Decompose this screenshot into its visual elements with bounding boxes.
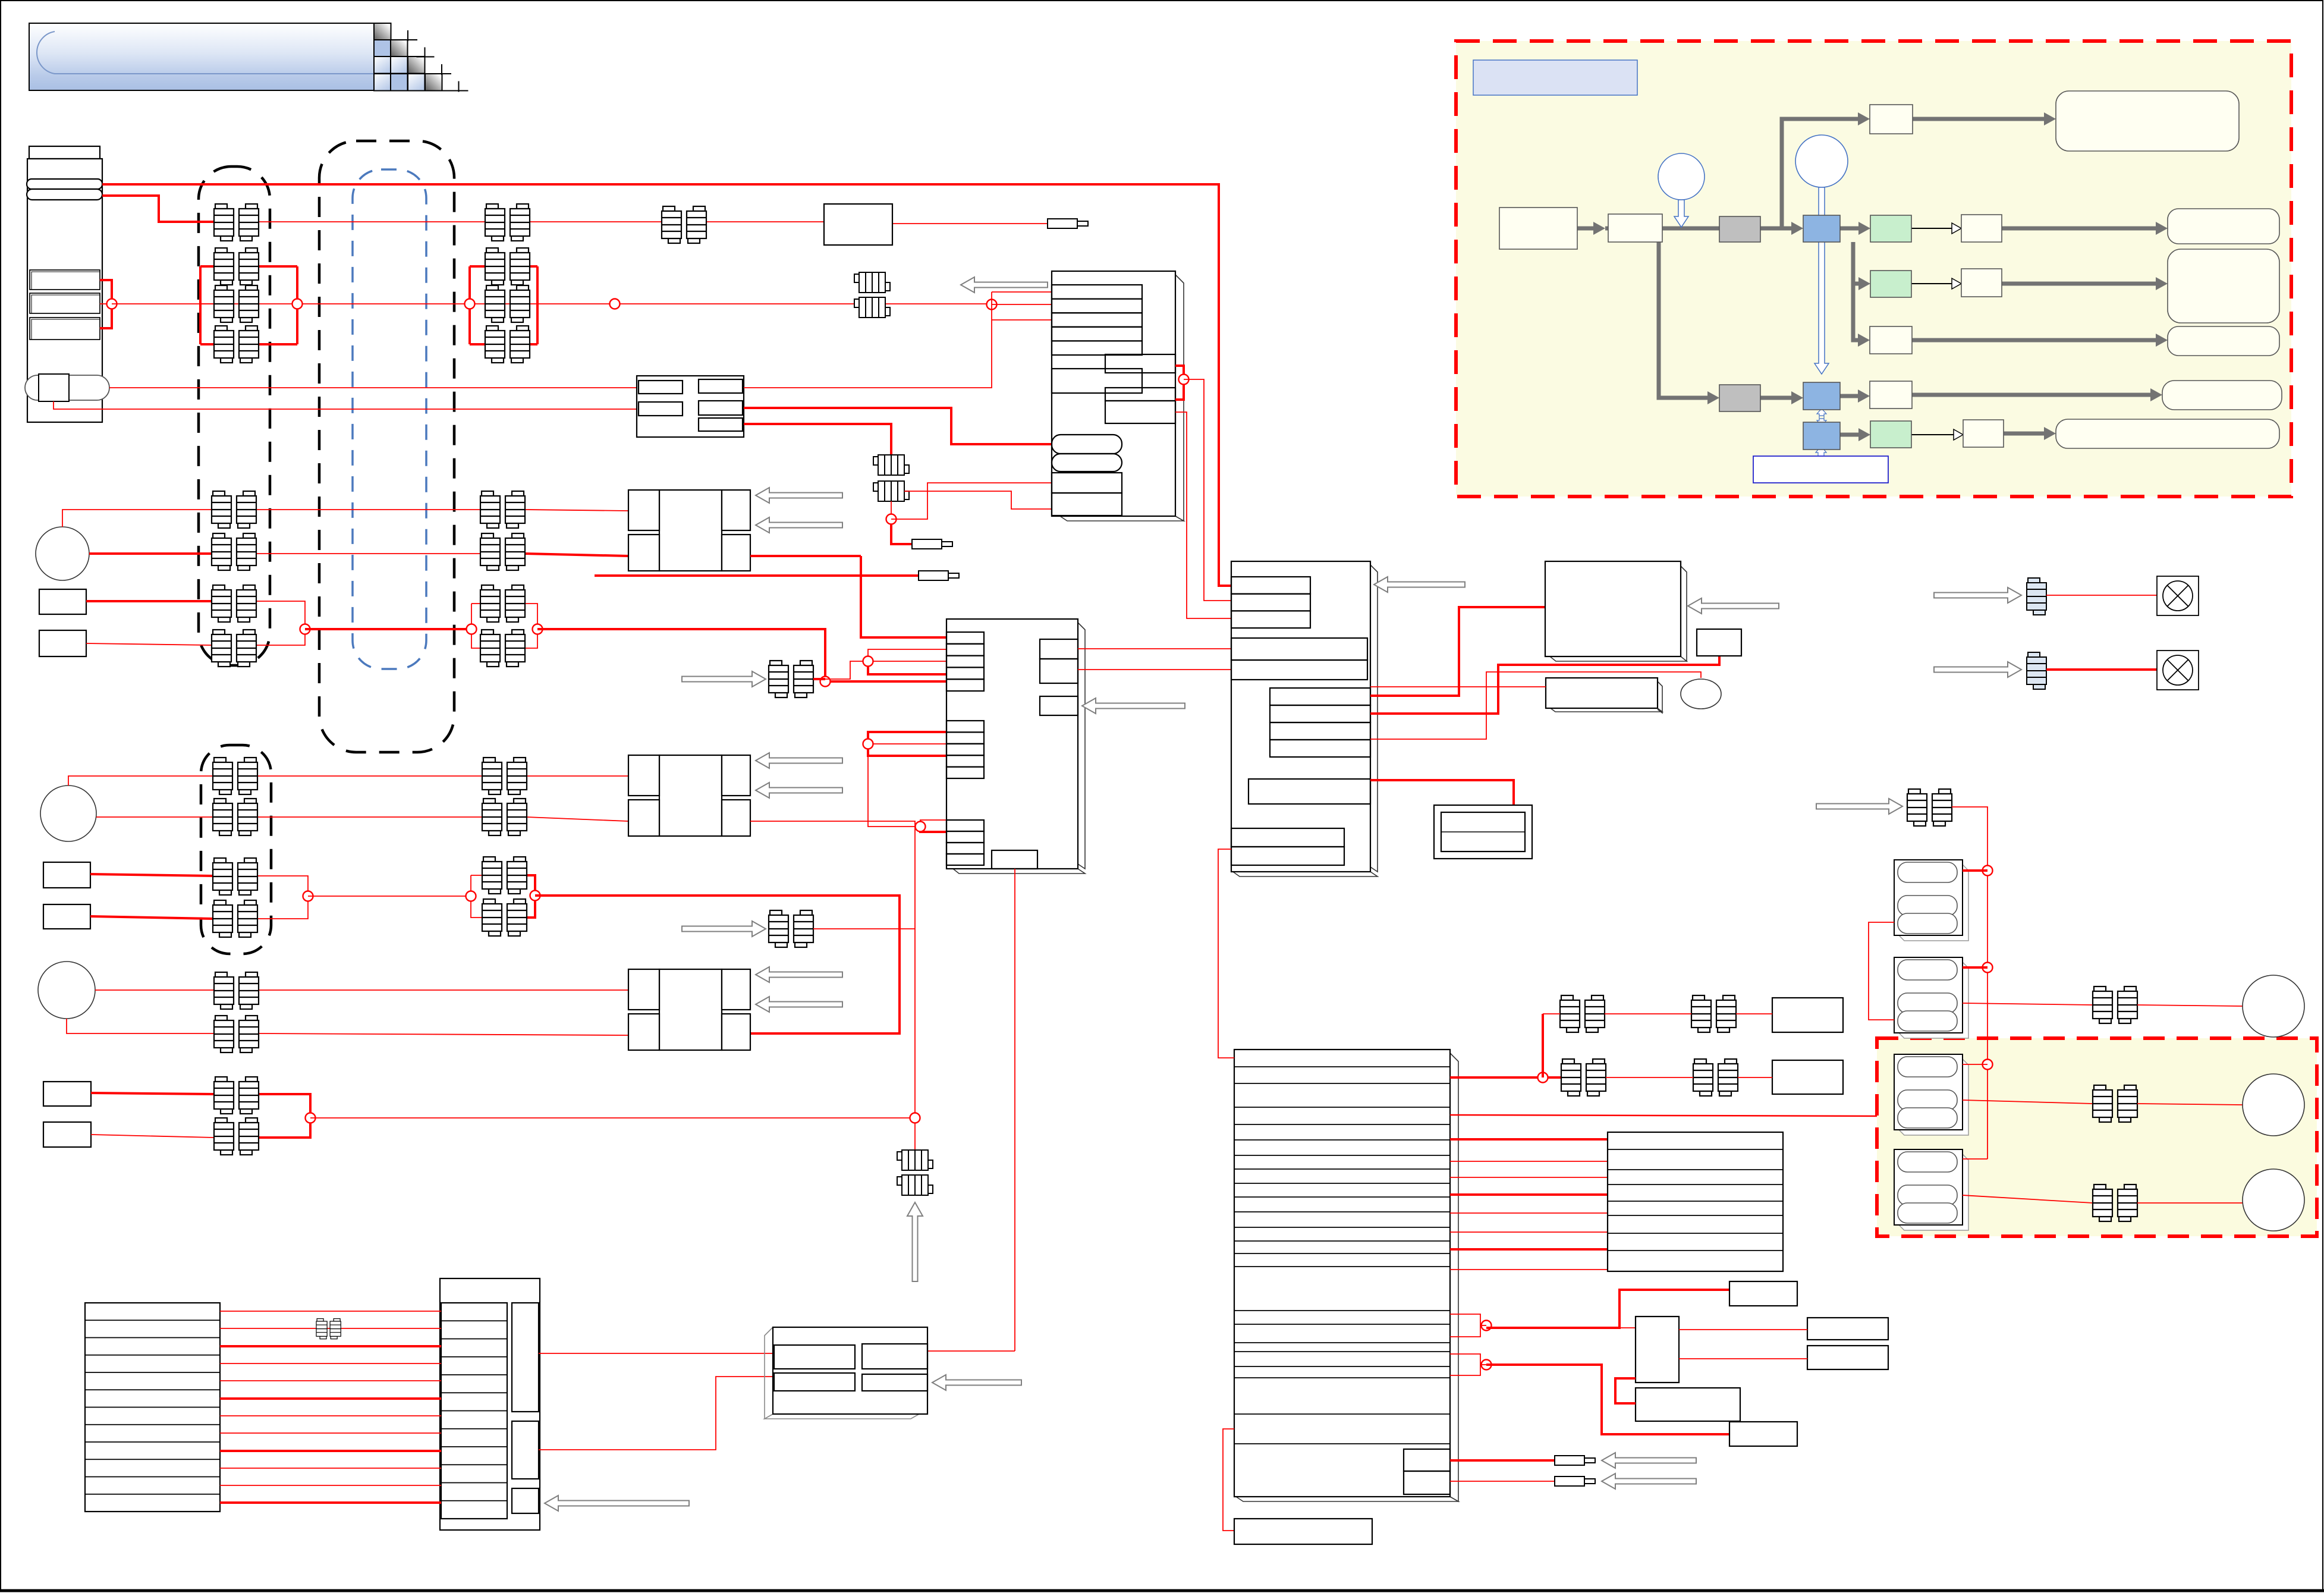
flow panel background: [1456, 41, 2291, 497]
wire G1 to node: [813, 678, 825, 680]
flow box B2 blue: [1803, 382, 1840, 410]
battery top cap: [29, 146, 100, 159]
inline pair mid with arrow 1: [682, 671, 766, 687]
ECU rows group2: [1234, 1310, 1450, 1311]
H1 output wire to junction box2: [750, 555, 861, 557]
flow box W2: [1961, 269, 2002, 297]
wide box WB: [1636, 1388, 1740, 1421]
connector pair A1-3: [214, 285, 259, 322]
fuse link box 2: [30, 293, 100, 313]
node battery bracket: [107, 299, 117, 309]
node S1: [1983, 963, 1993, 973]
wire SP to bus: [1952, 807, 1987, 1159]
sensor box 5: [43, 1082, 91, 1106]
wire pair to load1: [2137, 1005, 2243, 1006]
wire bracket2 east then down: [1486, 1365, 1729, 1434]
wire pair A1-1 to pair B1-1: [259, 221, 485, 222]
dashed harness box C blue: [353, 169, 426, 669]
bus y1507: [308, 896, 471, 897]
node E right: [530, 891, 540, 901]
connector pair G2: [769, 910, 813, 947]
J2 pin rows group2: [946, 721, 984, 732]
node A1 right: [293, 299, 303, 309]
sensor box 1: [39, 589, 86, 614]
connector pair SP: [1907, 789, 1952, 826]
lamp feed arrow 1: [1934, 587, 2021, 603]
ECU plug out 2: [1450, 1481, 1555, 1482]
R1 out2 to J1 pill: [744, 408, 1052, 444]
flow B3 to Gr3: [1840, 433, 1863, 437]
chain wires row2: [1606, 1077, 1693, 1078]
wire battery pill2 to pair A1-1: [102, 196, 214, 222]
small box M5: [1697, 629, 1741, 656]
wire pair F2 east to hblock3: [259, 1033, 628, 1035]
arrow annotation block R: [545, 1496, 689, 1511]
arrow annotation relay block H3 b: [756, 997, 842, 1012]
flow box L2: [1608, 214, 1662, 242]
circle C1: [1658, 153, 1705, 200]
relay box R7: [824, 204, 892, 245]
J2 upper bracket node: [868, 649, 946, 656]
flow rounded R2: [2168, 249, 2279, 323]
wire lamp2: [2046, 668, 2157, 671]
wire pair E2 to hblock2: [527, 817, 628, 821]
wire gauge2 right to pair D2: [96, 816, 213, 818]
connector pair A1-4: [214, 326, 259, 363]
J1 pin rows: [1052, 285, 1142, 299]
bracket C2 3/4 left: [471, 603, 480, 604]
connector pair B1-1: [485, 204, 530, 241]
flow box L1: [1499, 208, 1577, 249]
connector pair A2-2: [212, 533, 256, 570]
ECU bottom box: [1234, 1519, 1372, 1544]
arrow annotation relay block H2 b: [756, 783, 842, 798]
chain wires row1: [1543, 1013, 1560, 1014]
chain pairs row2: [1561, 1059, 1606, 1096]
wire pair A2-2 to C2-2 to hblock1 in2: [256, 553, 480, 554]
load circle 2: [2243, 1074, 2304, 1136]
node J1 right: [1179, 375, 1189, 385]
wire relay feed left: [1619, 1327, 1636, 1328]
H1 riser into J2 row1: [861, 556, 946, 637]
connector pair F4: [214, 1118, 259, 1155]
bottom right block R outer: [440, 1278, 540, 1530]
wire gauge2 top to pair D1: [68, 776, 213, 786]
relay block H1 body: [659, 490, 722, 571]
bracket B1 right: [536, 266, 539, 344]
feed arrow stack pair: [1816, 799, 1902, 814]
B2-B3 double arrow: [1817, 409, 1826, 426]
arrow annotation J3: [1374, 577, 1465, 592]
flow T1 to R0: [1913, 117, 2049, 121]
connector stack below H2 riser: [897, 1150, 933, 1170]
sensor box 3: [43, 862, 90, 888]
flow W4 to R4: [1912, 393, 2155, 397]
connector pair C2-4: [480, 630, 525, 667]
node bus mid: [610, 299, 620, 309]
J2 right box 2: [1040, 659, 1078, 683]
wire J1 tab3 to J3 row3: [1175, 412, 1231, 618]
wire J3 bottom row to ECU top: [1218, 849, 1234, 1058]
ECU bottom sub-boxes: [1404, 1449, 1450, 1471]
connector pair C2-3: [480, 585, 525, 622]
wire lamp1: [2046, 595, 2157, 596]
BB up arrow: [1816, 446, 1826, 456]
connector pair F3: [214, 1077, 259, 1114]
flow box B3 blue: [1803, 422, 1840, 450]
inline pair mid with arrow 2: [682, 921, 766, 937]
junction box J3: [1231, 561, 1370, 872]
flow Gr2 to W2: [1911, 283, 1954, 284]
bus y1507 east to H3 riser: [535, 896, 900, 1033]
module box M4: [1545, 561, 1681, 656]
relay R4 3d shadow: [765, 1327, 919, 1419]
J1 bottom rows: [1052, 473, 1122, 493]
flow Gr1 to W1: [1911, 228, 1954, 229]
flow box W4: [1870, 381, 1912, 409]
J1 right bracket wires: [1175, 366, 1184, 400]
fuse link box 1: [30, 270, 100, 290]
arrow annotation relay block H2 a: [756, 753, 842, 768]
wire J3 mid3: [1370, 672, 1701, 739]
battery body: [27, 159, 102, 422]
flow box Gr1 green: [1870, 215, 1911, 242]
inline pair on B1 wire: [662, 206, 706, 243]
J3 mid rows: [1270, 688, 1370, 705]
lamp connector 2: [2027, 652, 2046, 689]
flow W2 to R2: [2002, 282, 2161, 286]
node bus at junction box 1: [987, 300, 997, 310]
chain box row2: [1772, 1060, 1843, 1094]
ECU bracket out 1: [1450, 1314, 1480, 1337]
wire ECU row 1810 east: [1450, 1076, 1561, 1079]
flow rounded R0: [2056, 91, 2239, 151]
flow branch down: [1659, 228, 1712, 398]
connector pair B1-2: [485, 248, 530, 285]
8row box: [1608, 1132, 1783, 1271]
connector pair C2-2: [480, 533, 525, 570]
arrow annotation relay block H1 b: [756, 517, 842, 533]
wire sensor5 to pair F3: [91, 1093, 214, 1094]
wire J2 rbox1 to J3: [1078, 648, 1231, 649]
flow panel label box: [1473, 60, 1637, 95]
J3 pin rows top: [1231, 577, 1310, 594]
stack S2: [1894, 1054, 1968, 1135]
flow main line: [1577, 227, 1598, 231]
wire sensor6 to pair F4: [91, 1135, 214, 1138]
wire S1 mid to pair: [1963, 1003, 2093, 1005]
flow box W1: [1961, 215, 2002, 242]
wire pair E1 to hblock2: [527, 775, 628, 777]
lamp connector 1: [2027, 578, 2046, 615]
R1 out1 to bus riser: [744, 320, 992, 388]
gauge circle 2: [40, 786, 96, 841]
banner checkerboard: [374, 23, 391, 40]
block R out1: [539, 1353, 773, 1354]
flow rounded R4: [2162, 381, 2282, 410]
node ECU 1810: [1538, 1073, 1548, 1083]
bracket A1 right: [296, 266, 298, 344]
relay R5 inner: [1441, 812, 1525, 852]
J3 lower row: [1249, 779, 1370, 804]
connector pair load2: [2093, 1085, 2137, 1122]
yellow option panel: [1877, 1038, 2317, 1236]
bracket A1 left: [199, 266, 202, 344]
wire pair D1 east: [257, 775, 482, 777]
block R compartment 3: [512, 1488, 539, 1513]
flow box G1 gray: [1719, 216, 1760, 242]
connector pair D1-2: [213, 799, 257, 835]
wire ECU to stack S2 feed: [1450, 1115, 1894, 1116]
bar M6: [1546, 678, 1658, 708]
stack S1: [1894, 957, 1968, 1038]
wire pair B1-1 to inline pair: [530, 221, 662, 222]
C2 long arrow: [1814, 187, 1829, 374]
bus y1058: [305, 628, 471, 630]
battery terminal pill 1: [27, 179, 102, 189]
out box OB1: [1807, 1318, 1888, 1340]
inline connectors on box1 feed: [854, 272, 890, 293]
connector pair E1-4: [482, 899, 527, 936]
connector pair F1: [214, 972, 259, 1009]
small box SB1: [1729, 1281, 1797, 1306]
J2 right box 1: [1040, 639, 1078, 659]
connector pair B1-4: [485, 326, 530, 363]
wire J1 node to J3 row2: [1184, 379, 1231, 601]
flow B1 drop: [1853, 242, 1863, 284]
flow box G2 gray: [1719, 385, 1760, 411]
block R out2: [539, 1377, 773, 1450]
wire pair to load3: [2137, 1202, 2243, 1204]
stack S0: [1894, 860, 1968, 941]
relay SR body: [1636, 1317, 1679, 1383]
wire node to J1 bottom row: [891, 483, 1052, 519]
connector pair B1-3: [485, 285, 530, 322]
flow B1 to Gr1: [1840, 227, 1863, 231]
wire pair A2-1 to pair C2-1: [256, 509, 480, 510]
node C2 left: [467, 624, 477, 634]
arrow at plug2: [1602, 1474, 1696, 1489]
block R pin column: [441, 1303, 507, 1519]
wire gauge1 right to pair A2-2: [89, 552, 212, 555]
relay block H3 body: [659, 969, 722, 1050]
circle C2: [1795, 135, 1848, 187]
wire gauge3 bottom to pair F2: [67, 1019, 214, 1033]
flow W5 to R5: [2004, 432, 2049, 436]
wire gauge3 right to pair F1: [95, 989, 214, 991]
arrow at plug1: [1602, 1453, 1696, 1468]
connector pair C2-1: [480, 491, 525, 528]
lamp L1: [2157, 576, 2199, 615]
connector pair G1: [769, 661, 813, 698]
block R compartment 2: [512, 1421, 539, 1479]
dashed harness box A: [199, 166, 270, 665]
node down-bus: [820, 677, 831, 687]
J2 lower bracket node: [920, 820, 946, 827]
plug P0: [1048, 219, 1088, 228]
J2 bottom box: [992, 850, 1037, 869]
wire J3 mid1 to box4: [1370, 607, 1545, 696]
wire vconn tab to J1 bottom row2: [904, 491, 1052, 509]
connector pair D1-3: [213, 858, 257, 895]
sensor box 2: [39, 630, 86, 656]
bracket C2 3/4 right: [525, 604, 537, 648]
flow B2 to W4: [1840, 394, 1863, 398]
wire sensor4 to pair D4: [90, 916, 213, 919]
R1 out3 to connector stack: [744, 424, 891, 455]
gauge circle 1: [36, 527, 89, 580]
bracket into junction box1 rows: [991, 292, 992, 320]
flow rounded R5: [2056, 419, 2279, 448]
wire capsule inner to relay1 in2: [54, 401, 639, 409]
flow W1 to R1: [2002, 227, 2161, 231]
connector pair F2: [214, 1016, 259, 1053]
relay R4 body: [773, 1327, 927, 1414]
flow box T1: [1870, 105, 1913, 134]
connector pair E1-3: [482, 857, 527, 894]
sensor box 6: [43, 1122, 91, 1147]
node below stack: [891, 501, 892, 514]
ECU bottom left wire to box: [1223, 1429, 1234, 1531]
flow box W3: [1870, 326, 1912, 354]
chain box row1: [1772, 998, 1843, 1032]
lamp L2: [2157, 651, 2199, 690]
wire J2 rbox2 to J3: [1078, 669, 1231, 670]
bracket E3/E4 right: [527, 875, 535, 918]
C1 arrow: [1674, 200, 1688, 227]
checker registration marks: [407, 30, 408, 41]
fuse link box 3: [30, 318, 100, 340]
wire J3 mid2 to bar: [1370, 656, 1719, 714]
bottom left block L: [85, 1303, 220, 1512]
wire battery feed bus y310: [102, 184, 1231, 586]
connector pair D1-4: [213, 900, 257, 937]
connector pair A1-1: [214, 204, 259, 241]
J3 bottom rows: [1231, 828, 1344, 847]
J2 pin rows group3: [946, 820, 984, 831]
small box SB2: [1729, 1422, 1797, 1446]
wire inline pair to relay box R7: [706, 221, 824, 222]
arrow annotation M4: [1688, 598, 1779, 614]
riser to pair row1: [1542, 1014, 1544, 1077]
dashed harness box B: [319, 141, 454, 752]
connector pair D1-1: [213, 758, 257, 794]
connector pair A2-1: [212, 491, 256, 528]
R4 inner cells: [774, 1345, 855, 1369]
bracket D3/D4 right: [257, 876, 308, 919]
wire pair to load2: [2137, 1104, 2243, 1105]
node F bracket: [306, 1113, 316, 1123]
flow G2 to B2: [1760, 396, 1796, 400]
junction box J3 3d shadow: [1231, 565, 1378, 876]
wire node to plug: [891, 524, 912, 544]
arrow annotation J2: [1082, 698, 1185, 714]
sensor box 4: [43, 904, 90, 929]
wire F node east: [310, 1117, 915, 1119]
main bus y511: [112, 303, 992, 304]
battery terminal pill 2: [27, 189, 102, 200]
starter capsule: [25, 375, 109, 400]
wire sensor2 to pair A2-4: [86, 643, 212, 645]
wire J3 mid4 to relay5: [1370, 780, 1514, 808]
wire pair C2-1 to hblock1 in1: [525, 510, 628, 511]
wire R7 to plug: [892, 223, 1048, 224]
junction box J2 3d shadow: [953, 623, 1085, 874]
plug P2 with feed: [595, 574, 919, 577]
ECU bracket out 2: [1450, 1354, 1480, 1375]
H2 output wire: [750, 821, 915, 1150]
wire J2 bottom south to relay4: [1014, 869, 1015, 1351]
banner swoosh curve: [37, 32, 374, 74]
load circle 3: [2243, 1169, 2304, 1231]
arrow annotation relay block H1 a: [756, 488, 842, 503]
plug P1: [912, 539, 952, 549]
wire pair F1 east to hblock3: [259, 989, 628, 991]
stack S3: [1894, 1149, 1968, 1230]
flow Gr3 to W5: [1911, 434, 1956, 435]
node S2: [1983, 1060, 1993, 1070]
wire sensor3 to pair D3: [90, 874, 213, 876]
ECU block 3d shadow: [1234, 1053, 1458, 1501]
stack left link: [1869, 922, 1894, 1020]
bracket A2 3/4 right: [256, 601, 305, 645]
flow rounded R3: [2168, 326, 2279, 356]
connector pair load1: [2093, 986, 2137, 1023]
connector pair A2-3: [212, 585, 256, 622]
flow box Gr2 green: [1870, 271, 1911, 297]
bracket E3/E4 left: [471, 875, 482, 876]
inline connector stack: [873, 455, 909, 475]
node A2 bracket: [300, 624, 310, 634]
arrow annotation relay block H3 a: [756, 967, 842, 982]
wire S3 mid to pair: [1963, 1195, 2093, 1203]
wire S2 mid to pair: [1963, 1100, 2093, 1104]
node E left: [466, 891, 476, 901]
wire gauge1 top to pair A2-1: [62, 510, 212, 527]
J2 right box 3: [1040, 696, 1078, 715]
wire G2 to riser: [813, 928, 915, 929]
wires ECU to 8row box: [1450, 1138, 1608, 1141]
J2 mid bracket node: [868, 732, 946, 739]
relay block H2 body: [659, 755, 722, 836]
wire SR to WB: [1615, 1378, 1636, 1403]
flow box B1 blue: [1803, 215, 1840, 242]
lamp feed arrow 2: [1934, 662, 2021, 677]
J2 pin rows group1: [946, 632, 984, 644]
title banner block: [29, 23, 374, 90]
flow box Gr3 green: [1870, 421, 1911, 448]
wires SR outputs: [1679, 1329, 1807, 1330]
flow rounded R1: [2168, 209, 2279, 244]
wire pair D2 east: [257, 816, 482, 818]
junction box J2: [946, 619, 1078, 869]
arrow up at connector stack: [907, 1202, 923, 1281]
flow W3 to R3: [1912, 338, 2161, 343]
gauge circle 3: [38, 962, 95, 1019]
ECU rows group1: [1234, 1066, 1450, 1067]
module box M4 3d shadow: [1550, 566, 1687, 661]
fuse relay block R1: [637, 376, 744, 437]
flow riser to T1: [1782, 119, 1863, 228]
bus y1058 east then down to J2 row5: [537, 629, 946, 681]
bottom border heavy line: [0, 1589, 2324, 1592]
bar M6 3d: [1551, 681, 1662, 713]
node H2 riser: [910, 1113, 920, 1123]
wire capsule to relay1 in1: [109, 387, 639, 388]
chain pairs row1: [1560, 995, 1605, 1032]
node D bracket: [303, 891, 313, 901]
J1 pills: [1052, 435, 1122, 454]
